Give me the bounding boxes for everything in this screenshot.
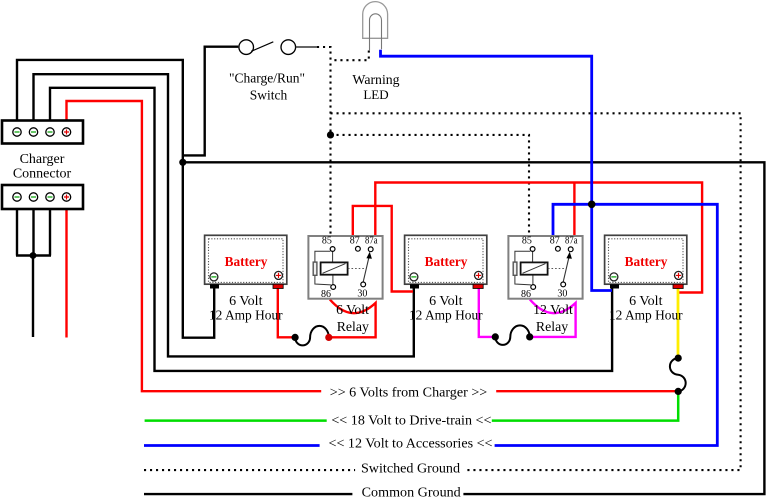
- wire: blue from relay2 87 to accessories rail: [495, 204, 718, 445]
- svg-text:Switched Ground: Switched Ground: [361, 461, 460, 477]
- svg-text:Relay: Relay: [337, 319, 369, 334]
- svg-text:Charger: Charger: [20, 152, 65, 167]
- svg-text:Common Ground: Common Ground: [362, 485, 461, 501]
- svg-text:Battery: Battery: [625, 254, 668, 269]
- charger connector box 2: [2, 185, 83, 209]
- wire: charger pin1 to junction/battery1 minus (black nest 1): [17, 60, 214, 338]
- wire: common ground rail left segment: [144, 493, 352, 495]
- wire: bottom connector pins merge: [16, 209, 51, 337]
- wire: magenta connector to relay2 pin 86 arc: [530, 300, 576, 337]
- svg-text:30: 30: [357, 289, 367, 300]
- connector S3: inline connector battery3 to rails: [670, 358, 686, 391]
- svg-text:Battery: Battery: [225, 254, 268, 269]
- svg-text:>> 6 Volts from Charger >>: >> 6 Volts from Charger >>: [330, 384, 488, 400]
- wire: switch left lead down to junction node: [183, 47, 239, 156]
- node: junction dot bottom connector merge: [30, 252, 37, 259]
- svg-text:LED: LED: [363, 87, 388, 102]
- svg-text:85: 85: [522, 235, 532, 246]
- svg-text:Switch: Switch: [250, 88, 288, 103]
- wire: switched ground rail left segment: [144, 469, 355, 471]
- svg-text:6 Volt: 6 Volt: [336, 302, 369, 317]
- charger connector box 1: [2, 121, 83, 144]
- svg-text:12 Amp Hour: 12 Amp Hour: [609, 308, 683, 323]
- svg-text:"Charge/Run": "Charge/Run": [229, 71, 305, 86]
- wire: blue from LED to battery3 minus: [381, 50, 613, 291]
- svg-text:12 Amp Hour: 12 Amp Hour: [409, 308, 483, 323]
- wire: charger pin2 to battery2 minus (black nest 2): [34, 74, 414, 356]
- relay K2: 12 Volt relay: [508, 235, 582, 300]
- svg-text:Connector: Connector: [13, 166, 72, 181]
- wire: bottom connector red pin lead: [65, 209, 67, 338]
- svg-text:12 Amp Hour: 12 Amp Hour: [209, 308, 283, 323]
- connector S2: inline connector battery2 to relay2: [495, 325, 529, 345]
- svg-text:<< 18 Volt to Drive-train <<: << 18 Volt to Drive-train <<: [331, 412, 491, 428]
- wire: drive-train rail left segment: [145, 419, 327, 422]
- svg-text:87a: 87a: [565, 235, 578, 246]
- svg-text:86: 86: [321, 289, 331, 300]
- svg-text:87: 87: [350, 235, 360, 246]
- wire: switched-ground dotted from switch down to relay1 pin 85: [317, 47, 331, 235]
- wire: 6V charger rail right segment: [496, 390, 678, 392]
- wire: charger pin4 red to 6V charger rail (red nest 4): [67, 101, 322, 391]
- svg-text:<< 12 Volt to Accessories <<: << 12 Volt to Accessories <<: [329, 436, 493, 452]
- svg-text:12 Volt: 12 Volt: [533, 302, 573, 317]
- wire: ground rail y162 across to right side and down to common ground: [183, 162, 765, 494]
- wire: red drop to relay2 87a: [573, 183, 575, 236]
- wire: dotted switched ground upper rail to right and down: [331, 113, 741, 470]
- battery B1: [205, 235, 287, 288]
- wire: dotted branch to relay2 pin 85: [331, 135, 530, 235]
- wire: 12V accessories rail left segment: [144, 444, 320, 447]
- svg-text:86: 86: [521, 289, 531, 300]
- svg-text:Relay: Relay: [536, 319, 568, 334]
- LED D1: warning LED: [363, 2, 388, 51]
- svg-text:87: 87: [550, 235, 560, 246]
- relay K1: 6 Volt relay: [308, 235, 382, 300]
- node: dotted junction dot: [327, 131, 334, 138]
- connector S1: inline connector battery1 to relay1: [295, 326, 329, 346]
- svg-text:Battery: Battery: [425, 254, 468, 269]
- wire: red rail from relay1 87a up and right to battery3 plus: [375, 183, 702, 293]
- node: junction dot at ground rail start: [179, 159, 186, 166]
- wire: green from connector to drive-train rail: [492, 391, 678, 420]
- svg-text:Warning: Warning: [352, 72, 399, 87]
- switch SW1: Charge/Run switch: [239, 40, 317, 55]
- battery B2: [405, 235, 487, 288]
- svg-text:87a: 87a: [365, 235, 378, 246]
- wire: charger pin3 to battery3 minus (black nest 3): [50, 88, 612, 371]
- wire: red tee to relay1 87 and down to battery2 minus: [353, 206, 413, 292]
- svg-text:30: 30: [557, 289, 567, 300]
- battery B3: [605, 235, 687, 288]
- svg-text:85: 85: [322, 235, 332, 246]
- node: blue junction dot: [588, 201, 596, 209]
- wire: battery1 plus down to connector: [278, 288, 295, 337]
- wire: dotted LED left lead to switched ground: [331, 51, 369, 61]
- wire: yellow battery3 plus down to connector: [677, 288, 680, 358]
- wire: red from connector up to relay1 pin 86 arc: [329, 300, 376, 338]
- wire: magenta battery2 plus to connector: [479, 288, 496, 337]
